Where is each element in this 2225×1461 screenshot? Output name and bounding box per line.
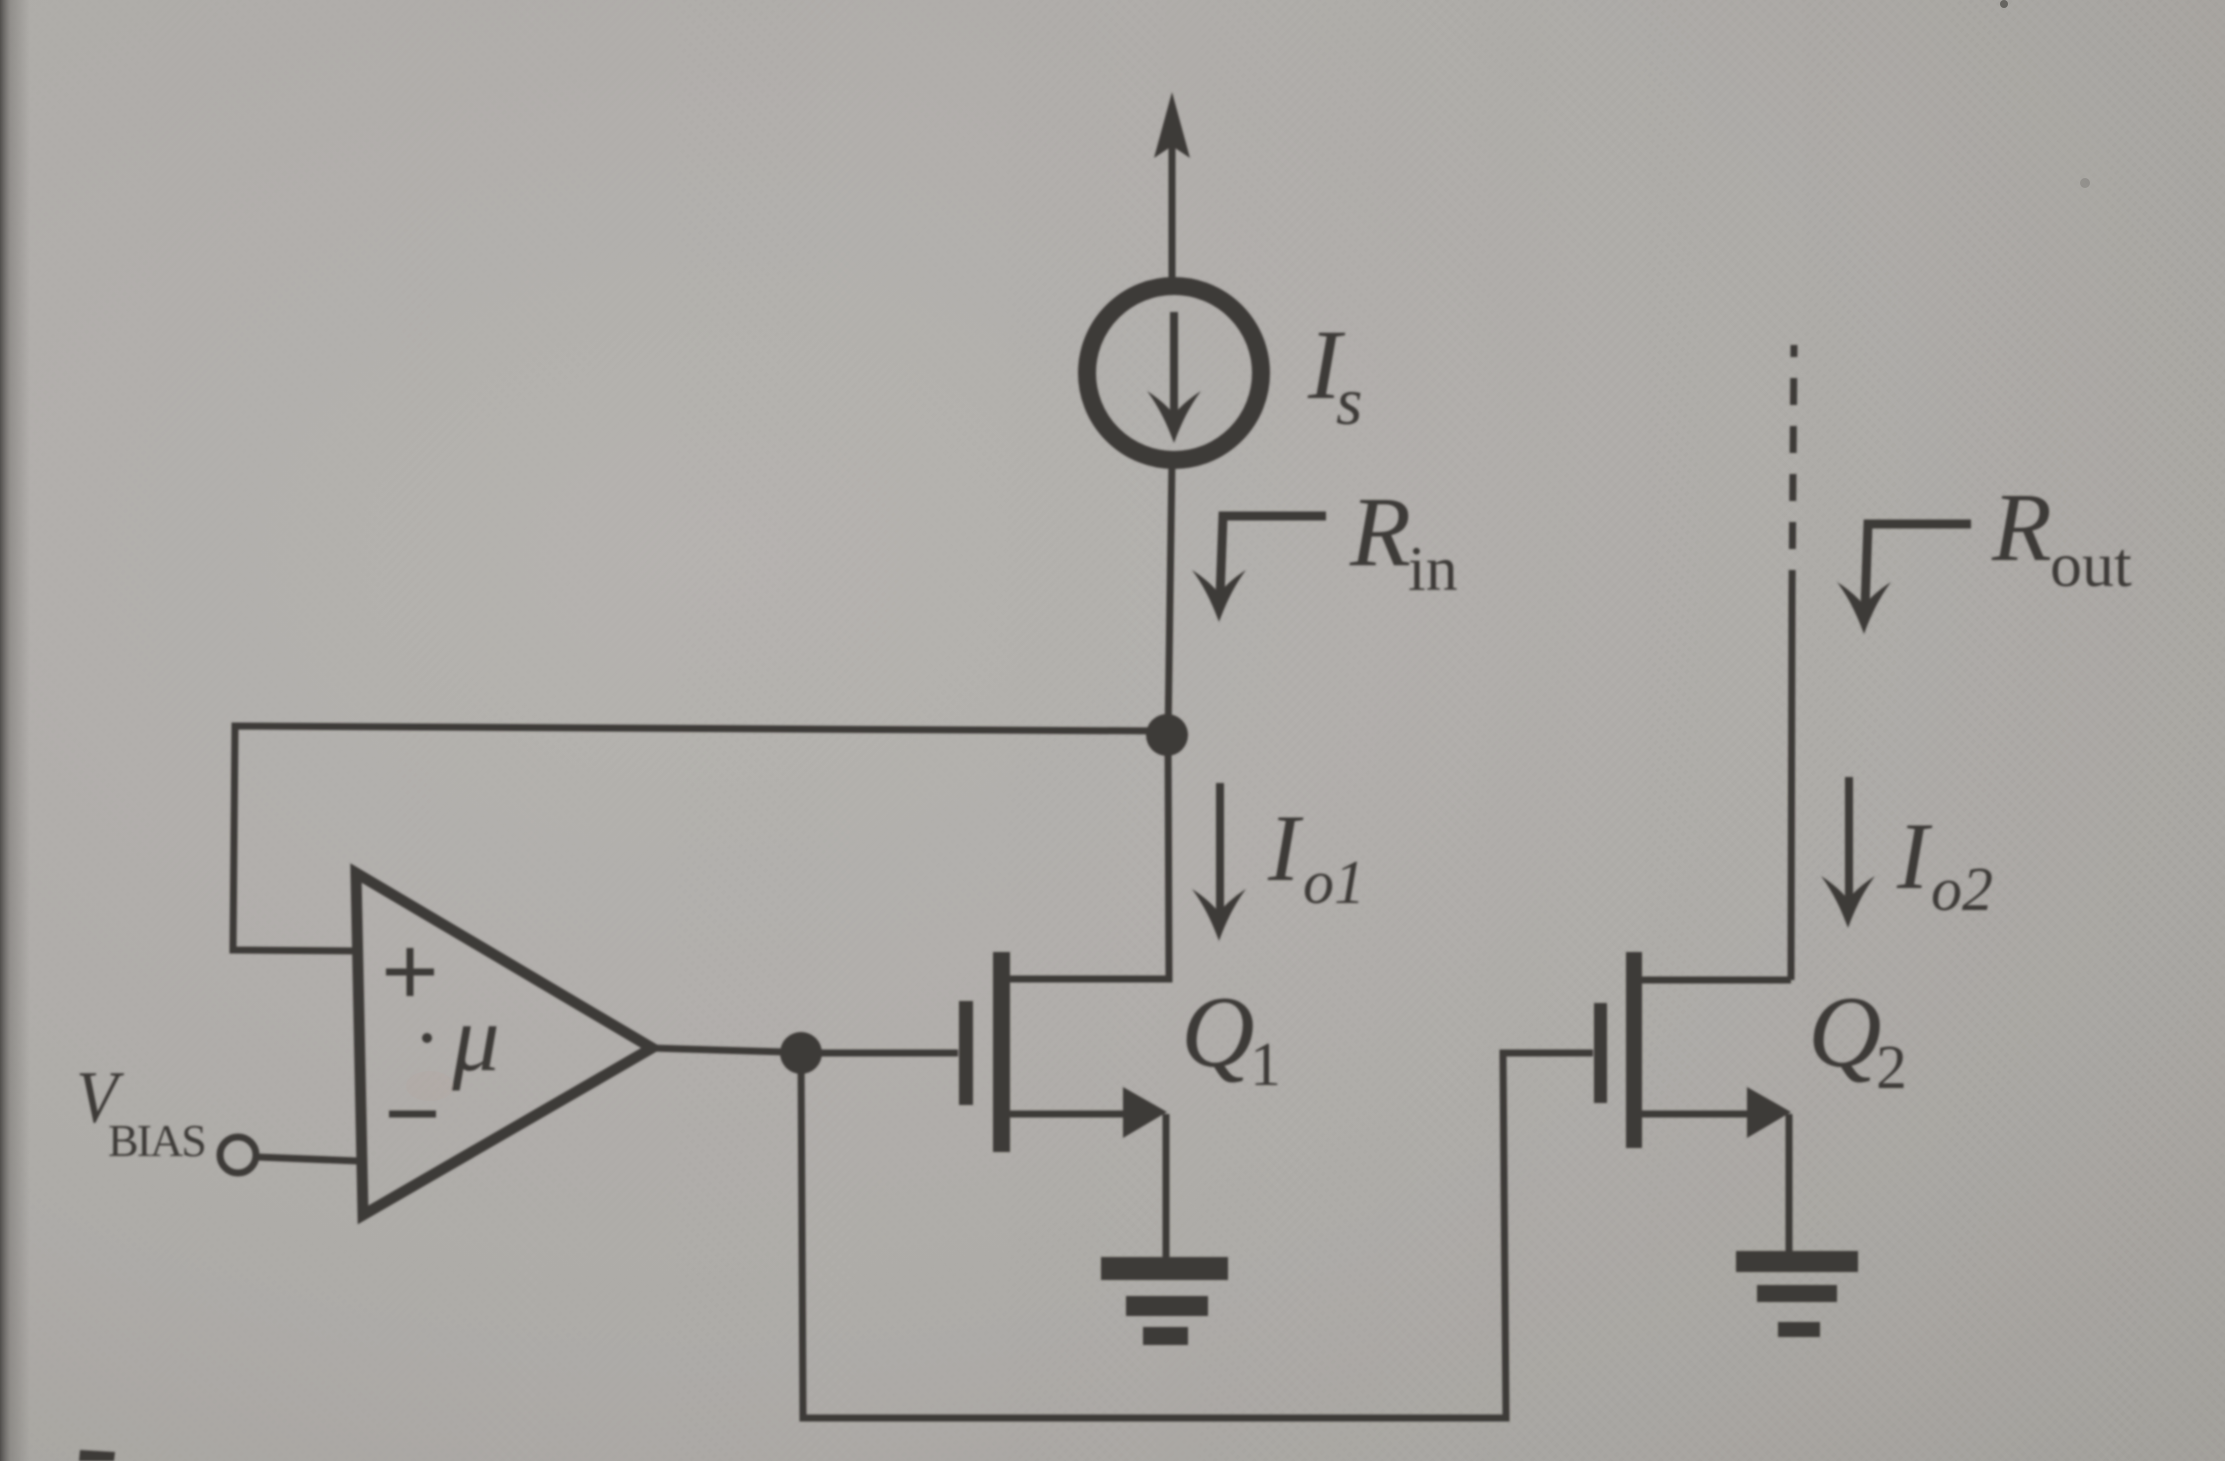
wire: VBIAS terminal to inverting input: [257, 1157, 358, 1161]
label Q1: [1181, 976, 1281, 1099]
label Q2: [1808, 976, 1907, 1102]
svg-text:I: I: [1896, 803, 1933, 909]
ground (Q1 source): [1101, 1257, 1228, 1345]
Rin hook arrow: [1192, 516, 1326, 622]
Rout hook arrow: [1837, 524, 1971, 634]
label VBIAS: [76, 1057, 205, 1166]
wire: gate bus down, along bottom, up to Q2 gate: [801, 1053, 1593, 1418]
caption fragment bottom-left: [79, 1450, 115, 1461]
junction dot: op-amp output node: [780, 1032, 822, 1074]
svg-text:R: R: [1991, 474, 2052, 582]
wire: supply line with up arrow above current source: [1154, 92, 1190, 279]
transistor Q2: [1594, 952, 1791, 1148]
svg-text:s: s: [1336, 363, 1362, 439]
svg-text:Q: Q: [1181, 976, 1255, 1089]
svg-text:μ: μ: [451, 985, 500, 1091]
node: input node (drain of Q1 / feedback tap): [1146, 714, 1188, 756]
wire: node down to Q1 drain: [1009, 735, 1169, 979]
svg-text:out: out: [2050, 529, 2132, 600]
faint specks: [2000, 0, 2008, 8]
label Io2 with arrow: [1821, 777, 1993, 928]
current source Is: [1087, 286, 1261, 460]
label Rout: [1991, 474, 2132, 600]
wire: output node to Q1 gate: [801, 1050, 958, 1057]
current arrow inside Is: [1147, 312, 1201, 443]
svg-text:BIAS: BIAS: [108, 1115, 205, 1166]
label Rin: [1349, 476, 1458, 604]
wire: current source to input node: [1168, 459, 1172, 736]
wire: dashed continuation above Q2 drain: [1792, 345, 1794, 597]
transistor Q1: [959, 952, 1167, 1152]
svg-text:I: I: [1267, 795, 1304, 901]
label Io1 with arrow: [1192, 783, 1365, 941]
svg-text:Q: Q: [1808, 976, 1882, 1089]
svg-text:o1: o1: [1303, 849, 1365, 917]
svg-text:2: 2: [1876, 1034, 1907, 1102]
svg-text:in: in: [1408, 533, 1458, 604]
wire: feedback from node to op-amp + input: [233, 726, 1167, 951]
svg-text:o2: o2: [1931, 856, 1993, 924]
label Is: [1307, 309, 1362, 439]
wire: op-amp output: [650, 1048, 785, 1052]
wire: Q2 drain up (solid part): [1791, 597, 1792, 980]
terminal VBIAS: [220, 1137, 256, 1173]
svg-text:1: 1: [1250, 1031, 1281, 1099]
op-amp U1: [356, 873, 652, 1215]
svg-text:R: R: [1349, 476, 1411, 587]
ground (Q2 source): [1736, 1251, 1858, 1337]
